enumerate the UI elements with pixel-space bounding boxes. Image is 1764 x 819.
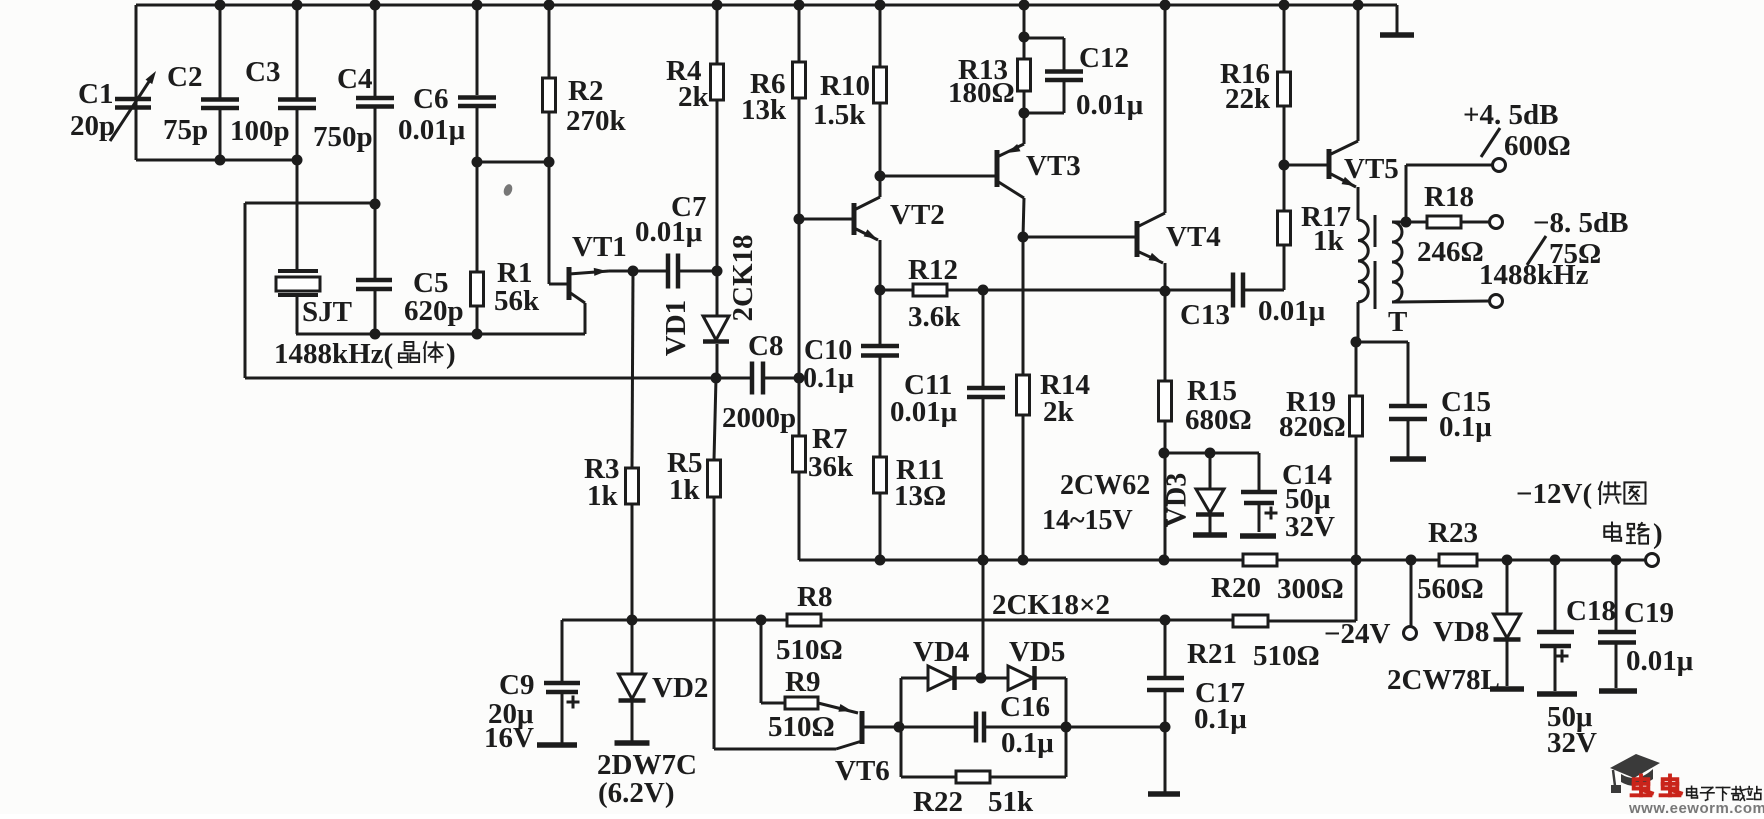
svg-text:VT1: VT1 [572, 231, 627, 263]
svg-text:1k: 1k [1313, 225, 1345, 257]
svg-text:VT3: VT3 [1026, 150, 1081, 182]
svg-text:36k: 36k [808, 451, 854, 483]
svg-text:0.01μ: 0.01μ [1076, 89, 1144, 121]
svg-text:560Ω: 560Ω [1417, 573, 1484, 605]
svg-text:1k: 1k [587, 480, 619, 512]
svg-text:246Ω: 246Ω [1417, 236, 1484, 268]
svg-text:VT2: VT2 [890, 199, 945, 231]
svg-text:680Ω: 680Ω [1185, 404, 1252, 436]
svg-text:C4: C4 [337, 63, 372, 95]
svg-text:R20: R20 [1211, 572, 1261, 604]
svg-text:VT5: VT5 [1344, 153, 1399, 185]
svg-text:510Ω: 510Ω [1253, 640, 1320, 672]
svg-text:VT4: VT4 [1166, 221, 1221, 253]
svg-text:SJT: SJT [302, 296, 352, 328]
svg-text:R9: R9 [785, 666, 820, 698]
svg-text:0.1μ: 0.1μ [803, 363, 854, 394]
svg-text:VD1: VD1 [660, 300, 692, 356]
svg-text:270k: 270k [566, 105, 627, 137]
svg-text:2000p: 2000p [722, 402, 796, 434]
svg-text:): ) [1653, 518, 1663, 550]
svg-text:R15: R15 [1187, 375, 1237, 407]
svg-text:51k: 51k [988, 786, 1034, 814]
svg-text:13Ω: 13Ω [894, 480, 946, 512]
svg-text:1488kHz(: 1488kHz( [274, 338, 393, 370]
svg-text:180Ω: 180Ω [948, 77, 1015, 109]
svg-text:R2: R2 [568, 75, 603, 107]
svg-text:−24V: −24V [1324, 618, 1391, 650]
svg-text:C8: C8 [748, 330, 783, 362]
svg-text:20p: 20p [70, 110, 115, 142]
svg-text:C2: C2 [167, 61, 202, 93]
svg-text:100p: 100p [230, 115, 290, 147]
svg-text:VD5: VD5 [1009, 636, 1065, 668]
svg-text:1k: 1k [669, 474, 701, 506]
svg-text:13k: 13k [741, 94, 787, 126]
svg-text:14~15V: 14~15V [1042, 505, 1133, 536]
svg-text:2CK18: 2CK18 [727, 235, 759, 322]
svg-text:C16: C16 [1000, 691, 1050, 723]
svg-text:22k: 22k [1225, 83, 1271, 115]
svg-text:3.6k: 3.6k [908, 301, 961, 333]
svg-text:820Ω: 820Ω [1279, 411, 1346, 443]
svg-text:R12: R12 [908, 254, 958, 286]
svg-text:C1: C1 [78, 78, 113, 110]
svg-text:VD2: VD2 [652, 672, 708, 704]
svg-text:−12V(: −12V( [1516, 478, 1592, 510]
svg-text:56k: 56k [494, 285, 540, 317]
svg-text:620p: 620p [404, 295, 464, 327]
svg-text:(6.2V): (6.2V) [598, 777, 675, 809]
svg-text:C6: C6 [413, 83, 448, 115]
svg-text:): ) [446, 338, 456, 370]
svg-text:R10: R10 [820, 70, 870, 102]
svg-text:C9: C9 [499, 669, 534, 701]
svg-text:C12: C12 [1079, 42, 1129, 74]
svg-text:+4. 5dB: +4. 5dB [1463, 99, 1559, 131]
svg-text:2CW78L: 2CW78L [1387, 664, 1500, 696]
svg-text:R21: R21 [1187, 638, 1237, 670]
svg-text:www.eeworm.com: www.eeworm.com [1628, 800, 1764, 814]
svg-text:0.1μ: 0.1μ [1439, 411, 1492, 443]
svg-text:300Ω: 300Ω [1277, 573, 1344, 605]
svg-text:0.01μ: 0.01μ [890, 396, 958, 428]
svg-text:VT6: VT6 [835, 755, 890, 787]
svg-text:32V: 32V [1285, 511, 1335, 543]
svg-text:16V: 16V [484, 722, 534, 754]
svg-text:2k: 2k [678, 81, 710, 113]
svg-text:2k: 2k [1043, 396, 1075, 428]
svg-text:C13: C13 [1180, 299, 1230, 331]
svg-text:75p: 75p [163, 114, 208, 146]
svg-text:2CK18×2: 2CK18×2 [992, 589, 1110, 621]
svg-text:0.01μ: 0.01μ [1626, 645, 1694, 677]
svg-text:R23: R23 [1428, 517, 1478, 549]
svg-text:R8: R8 [797, 581, 832, 613]
svg-text:VD8: VD8 [1433, 616, 1489, 648]
svg-text:1488kHz: 1488kHz [1479, 259, 1589, 291]
svg-text:R22: R22 [913, 786, 963, 814]
svg-text:600Ω: 600Ω [1504, 130, 1571, 162]
svg-text:32V: 32V [1547, 727, 1597, 759]
svg-text:−8. 5dB: −8. 5dB [1533, 207, 1629, 239]
svg-text:2CW62: 2CW62 [1060, 470, 1150, 501]
svg-text:0.01μ: 0.01μ [635, 216, 703, 248]
svg-text:510Ω: 510Ω [768, 711, 835, 743]
svg-text:T: T [1388, 306, 1407, 338]
svg-text:0.01μ: 0.01μ [398, 114, 466, 146]
svg-text:C10: C10 [804, 335, 852, 366]
svg-text:R18: R18 [1424, 181, 1474, 213]
svg-text:VD3: VD3 [1162, 473, 1193, 527]
svg-text:VD4: VD4 [913, 636, 969, 668]
svg-text:0.01μ: 0.01μ [1258, 295, 1326, 327]
svg-text:0.1μ: 0.1μ [1194, 703, 1247, 735]
svg-text:750p: 750p [313, 121, 373, 153]
svg-text:C3: C3 [245, 56, 280, 88]
svg-text:C19: C19 [1624, 597, 1674, 629]
svg-text:0.1μ: 0.1μ [1001, 727, 1054, 759]
svg-text:1.5k: 1.5k [813, 99, 866, 131]
svg-text:C18: C18 [1566, 595, 1616, 627]
svg-text:510Ω: 510Ω [776, 634, 843, 666]
